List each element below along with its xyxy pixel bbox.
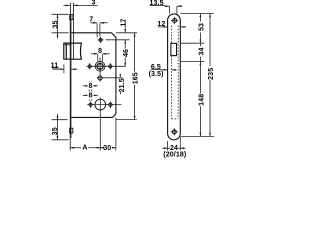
svg-text:21.5: 21.5 <box>119 78 126 92</box>
svg-text:A: A <box>82 144 87 151</box>
svg-text:235: 235 <box>208 68 215 80</box>
svg-text:11: 11 <box>51 63 59 70</box>
svg-text:17: 17 <box>121 19 128 27</box>
svg-text:8: 8 <box>88 83 92 90</box>
svg-text:13.5: 13.5 <box>150 0 164 7</box>
svg-text:7: 7 <box>89 16 93 23</box>
svg-text:(3.5): (3.5) <box>149 71 164 78</box>
svg-text:6.5: 6.5 <box>151 64 161 71</box>
svg-text:30: 30 <box>103 145 111 152</box>
svg-text:34: 34 <box>199 47 206 55</box>
svg-text:(20/18): (20/18) <box>163 152 186 159</box>
svg-text:46: 46 <box>123 49 130 57</box>
svg-text:8: 8 <box>88 93 92 100</box>
svg-text:3: 3 <box>91 0 95 7</box>
svg-text:148: 148 <box>198 94 205 106</box>
svg-text:35: 35 <box>52 127 59 135</box>
svg-text:165: 165 <box>133 72 140 84</box>
svg-text:35: 35 <box>52 20 59 28</box>
svg-text:8: 8 <box>98 48 102 55</box>
svg-text:53: 53 <box>199 23 206 31</box>
svg-text:12: 12 <box>157 21 165 28</box>
